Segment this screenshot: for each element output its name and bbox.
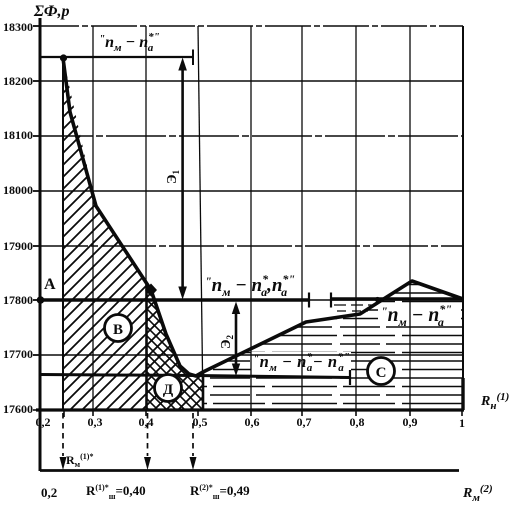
- circle label C: [368, 358, 395, 385]
- vertical gridline 0.3: [92, 26, 94, 410]
- y-axis: [39, 18, 42, 471]
- tick at 309: [308, 293, 310, 308]
- boundary line x=63 region A/B: [62, 58, 64, 410]
- svg-text:17600: 17600: [3, 402, 33, 416]
- svg-text:0,2: 0,2: [41, 485, 57, 500]
- dashed drop line R=0.24 with arrow: [60, 413, 67, 470]
- svg-text:17900: 17900: [3, 239, 33, 253]
- boundary x=203 thick lower: [202, 371, 205, 410]
- svg-text:0,3: 0,3: [88, 415, 103, 429]
- y axis ticks: [33, 26, 40, 410]
- vertical gridline 0.8: [355, 26, 357, 410]
- vertical gridline 0.5: [198, 26, 203, 410]
- circle label D: [155, 375, 182, 402]
- tick at 331: [330, 293, 332, 308]
- right border: [462, 26, 464, 410]
- x-axis 17600: [36, 408, 464, 411]
- vertical gridline 0.9: [409, 26, 411, 410]
- svg-text:В: В: [113, 322, 123, 338]
- 17800 thick dimension line left: [40, 298, 309, 302]
- dashed drop line R=0.49 with arrow: [190, 413, 197, 470]
- svg-text:18200: 18200: [3, 74, 33, 88]
- boundary 0.4 thick lower: [145, 283, 148, 410]
- top dimension line at 18240: [41, 56, 193, 58]
- horizontal gridline 18200: [33, 80, 463, 82]
- second axis bottom: [40, 469, 459, 472]
- svg-text:A: A: [44, 276, 56, 293]
- svg-text:0,7: 0,7: [297, 415, 312, 429]
- 17800 thick dimension line right: [331, 297, 463, 301]
- y tick labels: [3, 20, 33, 416]
- x axis ticks: [64, 410, 462, 417]
- circle label B: [105, 315, 132, 342]
- dashed drop line R=0.40 with arrow: [144, 413, 151, 470]
- svg-text:17700: 17700: [3, 347, 33, 361]
- marker dot curve start: [60, 54, 67, 61]
- vertical gridline 0.4 thin upper: [145, 26, 147, 283]
- horizontal gridline 17900: [33, 245, 463, 247]
- svg-text:"nм − n*"а: "nм − n*"а: [381, 302, 452, 329]
- svg-text:Д: Д: [163, 382, 174, 398]
- svg-text:0,6: 0,6: [245, 415, 260, 429]
- svg-text:0,4: 0,4: [139, 415, 154, 429]
- svg-text:18100: 18100: [3, 128, 33, 142]
- svg-text:0,2: 0,2: [36, 415, 51, 429]
- horizontal gridline 18300: [33, 25, 463, 27]
- svg-text:17800: 17800: [3, 293, 33, 307]
- region C horizontal stripes: [203, 281, 463, 410]
- white backing for label L3: [251, 352, 351, 372]
- minimum level thick line: [40, 375, 350, 378]
- horizontal gridline 17800 thin part: [33, 299, 463, 301]
- tick right end top dim: [192, 50, 194, 66]
- region D crosshatch overlay: [146, 283, 203, 410]
- horizontal gridline 18100: [33, 135, 463, 137]
- horizontal gridline 17700: [33, 354, 463, 356]
- svg-text:"nм − n*а,n*"а: "nм − n*а,n*"а: [205, 272, 295, 299]
- svg-text:С: С: [376, 365, 387, 381]
- vertical gridline 0.7: [301, 26, 303, 410]
- x tick labels: [36, 415, 466, 430]
- marker dot curve crossing 17800: [375, 297, 380, 302]
- svg-text:18300: 18300: [3, 20, 33, 34]
- svg-text:ΣФ,р: ΣФ,р: [33, 3, 70, 20]
- main curve: [63, 58, 463, 376]
- svg-text:0,5: 0,5: [193, 415, 208, 429]
- svg-text:"nм − n*а− n*"а: "nм − n*а− n*"а: [253, 351, 350, 374]
- arrow 2 (E2) double headed: [232, 302, 240, 377]
- horizontal gridline 18000: [33, 190, 463, 192]
- svg-text:0,8: 0,8: [350, 415, 365, 429]
- stripe fragments under right 17800 dim line: [334, 304, 372, 306]
- region B hatched: [63, 58, 203, 410]
- vertical gridline 0.6: [250, 26, 252, 410]
- marker diamond at 0.41: [145, 284, 157, 297]
- tick right end of min dim line: [349, 370, 351, 385]
- marker dot axis 17800: [37, 296, 45, 304]
- svg-text:"nм − n*"а: "nм − n*"а: [99, 31, 160, 54]
- white backing for label L4: [378, 303, 461, 326]
- arrow 1 (E1) double headed: [178, 58, 187, 300]
- svg-text:1: 1: [459, 416, 465, 430]
- svg-text:0,9: 0,9: [403, 415, 418, 429]
- svg-text:18000: 18000: [3, 183, 33, 197]
